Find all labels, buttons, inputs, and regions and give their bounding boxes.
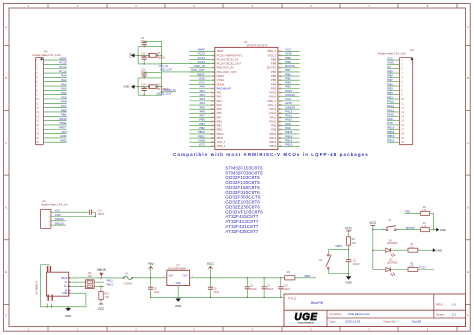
svg-text:UGE Electronics: UGE Electronics xyxy=(348,312,371,316)
svg-text:D: D xyxy=(467,205,469,209)
svg-text:D-: D- xyxy=(65,281,68,284)
svg-text:STM32F103C8T6: STM32F103C8T6 xyxy=(246,43,268,47)
svg-text:10pF: 10pF xyxy=(141,87,147,90)
svg-text:Date:: Date: xyxy=(330,320,337,324)
svg-text:LED-RED: LED-RED xyxy=(387,242,398,245)
svg-text:Drawn By:: Drawn By: xyxy=(384,320,397,324)
svg-text:PB12: PB12 xyxy=(387,139,394,143)
svg-text:VCC: VCC xyxy=(199,143,205,147)
svg-text:H2: H2 xyxy=(42,199,46,203)
svg-text:H5: H5 xyxy=(410,48,414,52)
svg-text:GND: GND xyxy=(65,314,71,318)
svg-text:AT32F425C8T7: AT32F425C8T7 xyxy=(225,229,258,234)
svg-text:D: D xyxy=(5,205,7,209)
svg-text:BluePill: BluePill xyxy=(311,301,323,305)
svg-text:GND: GND xyxy=(55,213,61,217)
svg-text:VCC: VCC xyxy=(55,209,61,213)
svg-text:100nF: 100nF xyxy=(267,288,274,291)
svg-text:2023-12-18: 2023-12-18 xyxy=(345,320,361,324)
svg-text:VBAT: VBAT xyxy=(304,274,311,278)
svg-text:BOOT0: BOOT0 xyxy=(406,226,415,230)
svg-text:OUT: OUT xyxy=(183,275,189,278)
svg-text:REV:: REV: xyxy=(436,303,443,307)
svg-text:1.0: 1.0 xyxy=(452,303,457,307)
svg-text:22R: 22R xyxy=(88,276,93,278)
svg-text:B: B xyxy=(467,76,469,80)
svg-text:VCC: VCC xyxy=(345,226,352,230)
svg-text:A: A xyxy=(5,25,7,29)
svg-text:VBUS: VBUS xyxy=(61,277,68,280)
svg-text:GND: GND xyxy=(62,292,68,295)
svg-text:15pF: 15pF xyxy=(141,40,147,43)
svg-text:4.7k: 4.7k xyxy=(422,209,427,212)
svg-text:PB12: PB12 xyxy=(269,144,276,148)
svg-text:A: A xyxy=(467,25,469,29)
svg-text:Header-Male-2.54_1x4: Header-Male-2.54_1x4 xyxy=(41,202,68,206)
svg-text:VDD_1: VDD_1 xyxy=(217,144,226,148)
svg-text:E: E xyxy=(5,270,7,274)
svg-text:PA11: PA11 xyxy=(107,278,114,282)
svg-text:Compatible with most ARM/RISC-: Compatible with most ARM/RISC-V MCUs in … xyxy=(173,152,369,157)
svg-text:4.7k: 4.7k xyxy=(422,225,427,228)
svg-text:VCC: VCC xyxy=(207,262,215,266)
svg-text:U-F-M8DD-H: U-F-M8DD-H xyxy=(37,281,39,295)
svg-text:*ELECTRONICS*: *ELECTRONICS* xyxy=(298,323,315,325)
svg-text:1/1: 1/1 xyxy=(452,312,457,316)
svg-text:OSC32_IN: OSC32_IN xyxy=(163,89,175,92)
svg-text:OSC_OUT: OSC_OUT xyxy=(160,69,173,72)
svg-text:Header-Male-2.54_1x20: Header-Male-2.54_1x20 xyxy=(33,53,62,57)
svg-text:VBUS: VBUS xyxy=(97,268,107,272)
svg-text:Company:: Company: xyxy=(330,312,343,316)
svg-text:100nF: 100nF xyxy=(283,288,290,291)
svg-text:100nF: 100nF xyxy=(250,288,257,291)
svg-text:16MHz: 16MHz xyxy=(158,57,166,60)
svg-text:1.5k: 1.5k xyxy=(104,296,109,299)
svg-text:E: E xyxy=(467,270,469,274)
svg-text:SWCLK: SWCLK xyxy=(55,221,64,225)
svg-text:Header-Male-2.54_1x20: Header-Male-2.54_1x20 xyxy=(378,52,407,56)
svg-text:TITLE:: TITLE: xyxy=(288,297,297,301)
svg-text:B: B xyxy=(5,76,7,80)
svg-text:VIN: VIN xyxy=(169,275,173,278)
svg-text:GND: GND xyxy=(176,283,181,285)
svg-text:GND: GND xyxy=(345,280,351,284)
svg-text:C: C xyxy=(467,141,469,145)
svg-text:LED-RED: LED-RED xyxy=(387,262,398,265)
svg-text:VCC: VCC xyxy=(98,307,105,311)
svg-text:C: C xyxy=(5,141,7,145)
svg-text:GND: GND xyxy=(175,304,181,308)
svg-text:Sheet:: Sheet: xyxy=(436,312,445,316)
svg-text:15pF: 15pF xyxy=(141,55,147,58)
svg-text:100nF: 100nF xyxy=(98,213,105,216)
svg-text:PB2: PB2 xyxy=(405,210,410,214)
svg-text:PC13: PC13 xyxy=(419,266,426,270)
svg-text:GND: GND xyxy=(124,85,130,89)
svg-text:PA12: PA12 xyxy=(107,283,114,287)
svg-text:PB12: PB12 xyxy=(285,143,292,147)
svg-text:GND: GND xyxy=(60,139,66,143)
svg-text:GND: GND xyxy=(129,52,132,58)
svg-text:+5V: +5V xyxy=(148,262,155,266)
svg-text:10pF: 10pF xyxy=(141,71,147,74)
svg-text:UGE: UGE xyxy=(294,312,317,323)
svg-text:10uF: 10uF xyxy=(154,291,160,294)
svg-text:NRST: NRST xyxy=(335,244,342,248)
svg-text:SWDIO: SWDIO xyxy=(55,217,64,221)
svg-text:100nF: 100nF xyxy=(353,263,360,266)
svg-text:VCC: VCC xyxy=(369,221,376,225)
svg-text:Tech83: Tech83 xyxy=(412,320,422,324)
svg-text:10uF: 10uF xyxy=(214,291,220,294)
svg-text:0.5A/6V: 0.5A/6V xyxy=(124,283,133,286)
svg-text:OSC32_OUT: OSC32_OUT xyxy=(157,93,172,96)
svg-text:GND: GND xyxy=(436,248,442,252)
svg-text:GND: GND xyxy=(440,228,446,232)
